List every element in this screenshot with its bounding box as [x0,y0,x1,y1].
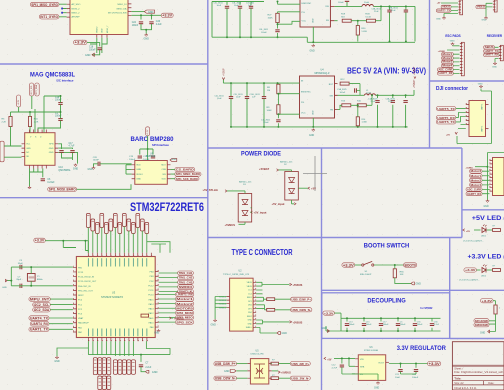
U6 left pins [355,359,358,374]
svg-text:VOUT: VOUT [378,362,385,364]
svg-text:VDDIO: VDDIO [136,174,143,176]
svg-text:DP2: DP2 [248,308,252,310]
QMC bottom pins [30,165,47,168]
svg-text:SBU1: SBU1 [247,297,252,299]
svg-text:I2C1_SCL: I2C1_SCL [31,84,33,94]
svg-text:B3U-1000P: B3U-1000P [360,274,372,276]
junction dots BEC2 fb [357,104,359,106]
svg-text:GND: GND [450,41,455,43]
resistor R8 1M (BEC2) [267,84,280,94]
wire +3.3V to BARO caps rail [140,136,153,161]
wire BEC1 output rail [373,6,415,41]
BMP left pins [132,165,135,179]
net label +5V_input (D3 out) [251,211,267,215]
svg-text:GND: GND [49,152,54,154]
capacitor C7 2.2uF [139,362,152,369]
capacitor C41 10uF (BEC2 in) [234,94,250,99]
svg-text:4.7uF: 4.7uF [69,146,75,148]
ground symbol DJI top [478,83,483,88]
svg-text:C1A_8025: C1A_8025 [337,88,347,91]
sheet divider horizontal y=81 (DJI connector top) [430,80,504,82]
capacitor C37 22uF (BEC1 out) [389,6,409,12]
svg-text:10uF: 10uF [217,98,222,100]
svg-text:UART?_RX: UART?_RX [439,72,453,75]
wire SPI1_MOSI_BARO to BMP [77,184,131,189]
capacitor C55 100nF (dec) [413,321,423,326]
capacitor C33 100nF (BEC1) [259,29,280,34]
svg-text:TIM1_CH3: TIM1_CH3 [179,280,193,284]
wire LED2 left [477,269,481,271]
svg-text:GND: GND [480,333,485,335]
wire DJI flags to pins [456,109,466,129]
wire BEC2 fb network [338,95,373,117]
svg-text:SPI1_MOSI_BARO: SPI1_MOSI_BARO [49,188,76,192]
wire D3 output [251,208,252,212]
svg-text:SDO: SDO [161,165,166,167]
capacitor C20 100nF (REG out) [412,370,419,379]
svg-text:0.22uF: 0.22uF [47,182,55,184]
net flag SWDIO (SWD) [474,323,489,327]
net label +5V (D2 right) [308,186,316,190]
svg-text:4.7uF: 4.7uF [332,367,338,369]
MCU bottom pin labels (vertical) [88,329,146,337]
net flag +3.3V (MCU) [34,238,46,242]
svg-text:GND: GND [416,283,422,286]
junction dots BEC2 rail [230,126,232,128]
svg-text:DJI connector: DJI connector [436,86,468,92]
wire REG out caps to GND [401,372,417,374]
svg-text:GNB: GNB [136,169,141,171]
switch S1 B3U-1000P [360,261,374,275]
svg-text:100nF: 100nF [261,32,267,34]
ground symbol ESC PADS top [450,41,455,46]
net flag column right of MCU (upper) [178,271,194,294]
svg-text:2.2K: 2.2K [2,121,7,123]
junction dots caps top [140,14,142,16]
svg-text:+5VBUS: +5VBUS [293,321,303,324]
svg-text:8MHz: 8MHz [37,279,43,281]
wire MAG edge connector to chip [4,146,21,157]
ground symbol motor connector [484,200,490,209]
wire TYPE-C VBUS to +5VBUS [256,282,289,286]
svg-text:QMC5883L: QMC5883L [58,169,71,172]
svg-text:33pF: 33pF [16,279,22,281]
wire BEC2 input rail [223,80,299,96]
ic U3 STM32F722RET6 (MCU) [76,257,155,338]
svg-text:PC12: PC12 [148,285,154,287]
svg-text:+5VBUS: +5VBUS [225,223,236,227]
label U5 USBLC6 [250,351,264,356]
QMC top pins [30,130,47,133]
U5 internal diodes [254,364,265,378]
wire TYPE-C shell to GND below [256,328,277,334]
svg-text:USB_2W_P+: USB_2W_P+ [291,362,309,366]
crystal Y1 8MHz [27,274,42,282]
net flag SPI1_MOSI_BARO [48,187,77,191]
svg-text:LY-2.5/Y2C-CQ(RU/T...: LY-2.5/Y2C-CQ(RU/T... [459,280,480,282]
svg-text:C18: C18 [89,46,94,48]
net label +5VBUS (TYPE-C lower) [290,321,303,325]
capacitor C35 100nF (BEC1 bst) [338,0,349,4]
svg-text:GND: GND [148,11,154,14]
svg-text:GND: GND [248,320,253,322]
wire MCU left flags to pins [49,299,73,329]
wire +3.3V to MCU rail [45,241,88,253]
svg-text:MISO_2: MISO_2 [72,13,81,15]
label BAT54C D3 [239,180,252,186]
wire gyro pin to +3.3V flag via caps [132,15,162,19]
capacitor C30 10uF (BEC1 in) [214,3,230,9]
svg-text:CS_BARO: CS_BARO [176,168,195,172]
ic U9 BMP280 (BARO chip) [135,161,168,185]
ground symbol TYPE-C bottom [277,332,287,336]
net label +5VBAT (D2) [259,167,279,171]
svg-text:TIM1_CH2: TIM1_CH2 [179,276,193,280]
DJI right pin [486,105,489,129]
svg-text:INT1_GYRO: INT1_GYRO [40,15,58,19]
ic U8 MP9943 (BEC1, partial) [300,0,330,27]
svg-text:GND: GND [88,169,93,171]
ground symbol BEC2 [309,129,315,137]
wire REG input [334,358,355,366]
svg-text:10uF: 10uF [236,96,241,98]
svg-text:POWER DIODE: POWER DIODE [241,150,282,157]
diode LED1 +5V [482,225,487,233]
net flag SPI1_MISO_BARO [175,172,201,176]
TYPE-C left pins [227,297,230,308]
capacitor C36 22uF (BEC1 out) [372,7,392,13]
inductor L3 10uH (BEC1) [362,2,373,6]
svg-text:100nF: 100nF [55,100,62,102]
QMC left pins [22,144,25,157]
BEC2 pin labels [301,80,334,115]
wire U5 pin1 [237,363,248,365]
svg-text:SD: SD [26,156,29,158]
net label +5VBUS (U5 right) [278,371,291,375]
svg-text:33pF: 33pF [18,263,24,265]
svg-text:INT1/SYNC/CLKIN: INT1/SYNC/CLKIN [108,13,127,15]
capacitor C40 10uF (BEC2 in) [215,96,234,101]
svg-text:STM32F722RET6: STM32F722RET6 [101,295,123,299]
svg-text:GND: GND [313,110,315,115]
svg-text:100nF: 100nF [263,122,269,124]
svg-text:KiCad E.D.A. 6.0.11: KiCad E.D.A. 6.0.11 [454,387,477,390]
ic U10 QMC5883L (MAG chip) [25,133,55,166]
svg-text:STM32F722RET6: STM32F722RET6 [130,200,204,214]
svg-text:C26: C26 [156,21,161,23]
svg-text:NC: NC [26,152,30,154]
power flag GND above BARO [170,159,177,162]
svg-text:VIDEO: VIDEO [442,6,450,9]
BMP pin labels [136,165,166,181]
svg-text:GND: GND [436,19,441,21]
wire BEC1 caps to bottom rail [227,8,251,37]
svg-text:GND: GND [26,148,31,150]
wire switch right to BOOT0 [374,265,404,268]
capacitor C18 100nF [89,46,102,51]
net label +5V (DJI) [446,132,457,136]
svg-text:TIM1_CH1: TIM1_CH1 [179,271,193,275]
svg-text:PA12: PA12 [149,312,155,315]
svg-text:BAT54C_215: BAT54C_215 [280,160,293,163]
U5 right pins [269,364,272,379]
svg-text:10K: 10K [400,274,404,276]
svg-text:Sheet: /: Sheet: / [454,367,463,371]
resistor R10 2.2K (MAG) [28,117,38,127]
svg-text:MOTOR5: MOTOR5 [176,306,193,310]
net flag USB_D2W_N (U5) [214,376,237,380]
svg-text:for STM32: for STM32 [420,306,432,310]
net flag USB2W_N (U5 right) [290,376,310,380]
power flag GND (BOOTH) [411,282,421,286]
net flag +3.3V (SWD) [481,299,494,303]
capacitor C42 1uF (BEC2 in) [250,94,267,99]
wire R56 to GND [395,278,411,284]
junction dots decoupling [346,317,416,332]
wire R8/R9 to chip [278,83,299,127]
net flag UART5_TX2 (DJI) [436,120,456,124]
inductor L1 10uH (BEC2) [364,90,375,96]
svg-text:+5VBUS: +5VBUS [281,371,291,374]
capacitor C24 100nF [132,22,144,27]
wire REG EN tie [352,373,355,375]
svg-text:+5V_STLink: +5V_STLink [203,188,219,192]
title block frame [452,342,504,390]
ground symbol right cluster [482,17,488,22]
svg-text:UART?_TX: UART?_TX [485,50,499,53]
wire BEC1 input rail top [212,2,264,38]
pad pins column ESC PADS [460,42,464,76]
svg-text:BOOT0: BOOT0 [405,263,416,267]
diode D2 BAT54C [285,172,299,201]
junction dots R27 node [277,23,279,25]
ic U6 RT9013 (3.3V regulator) [358,355,385,381]
junction dots BARO rail [147,148,149,150]
wire caps bottom join [62,153,78,164]
svg-text:GND: GND [136,179,141,181]
svg-text:GND: GND [374,388,379,390]
svg-text:BARO BMP280: BARO BMP280 [131,136,174,143]
svg-text:GND: GND [282,332,288,335]
capacitor C19 100nF (BARO) [129,156,142,161]
wire BEC1 fb network [351,6,381,41]
svg-text:VCC: VCC [301,113,306,115]
svg-text:C3A_8011: C3A_8011 [372,7,382,10]
svg-text:SPI Interface: SPI Interface [152,143,169,147]
svg-text:R1B: R1B [365,14,370,16]
svg-text:ADC_CURR: ADC_CURR [467,187,482,191]
net label +5VBAT vertical (BEC2 out) [413,79,416,88]
net flag column motor connector [466,169,482,196]
wire QMC bottom pins down [30,169,43,187]
no-connect marks (blue) [61,8,63,10]
sheet divider horizontal y=64 (MAG section top) [0,63,208,65]
svg-text:+3.3V: +3.3V [18,99,20,105]
label U4 MP9943GQ-Z [315,69,330,75]
wire C12 to GND [342,367,378,380]
svg-text:+5VBUS: +5VBUS [174,317,184,320]
capacitor C14 100nF (BEC2 bst) [337,88,356,94]
net flag +3.3V (BOOTH) [342,263,355,267]
svg-text:UART5: UART5 [481,104,484,110]
svg-text:3.3V REGULATOR: 3.3V REGULATOR [397,345,446,352]
net label +5V (LED1) [463,229,471,233]
junction dots BEC2 out [377,94,379,96]
wire BEC2 output rail [376,90,415,127]
ground symbol C28 [88,167,96,172]
svg-text:USB_D2W_P+: USB_D2W_P+ [215,362,236,366]
svg-text:+3.3V: +3.3V [324,311,335,315]
svg-text:GND: GND [54,360,60,363]
sheet divider vertical x=429.5 (DJI/ESC column) [429,0,431,148]
MCU left pin labels [78,267,97,334]
wire MCU top right routing [147,242,170,253]
wire switch left [355,264,362,266]
wire MCU right pins to flags [159,273,178,322]
svg-text:22uF: 22uF [371,101,376,103]
sheet divider horizontal y=148 (BEC section bottom) [208,147,462,149]
diode LED2 +3.3V [482,265,487,273]
svg-text:I2C2_SDA: I2C2_SDA [34,308,50,312]
svg-text:+5V: +5V [327,359,332,361]
svg-text:PH0-OSC_IN: PH0-OSC_IN [78,286,91,288]
svg-text:MISO_DI: MISO_DI [118,4,127,6]
BMP right pins [167,165,170,179]
resistor R58 10K (SWD) [494,305,501,314]
capacitor C16 100nF (MAG) [55,97,63,105]
wire bus cluster to MCU top pins [88,227,147,253]
ground symbol MAG bottom [28,186,31,189]
capacitor C13 100nF (dec) [345,321,355,326]
svg-text:+VSUP: +VSUP [224,68,226,76]
sheet divider vertical x=321.5 [321,148,323,390]
svg-text:100nF: 100nF [412,377,419,379]
wire BEC1 SW to inductor [334,2,362,21]
svg-text:AP1/MP: AP1/MP [72,16,81,19]
capacitor C12 4.7uF (REG in) [332,364,345,369]
net flag VIDEO (left cluster) [441,5,451,8]
label U10 QMC5883L [58,166,71,172]
capacitor C17 100nF (dec) [379,321,389,326]
svg-text:VIN: VIN [360,359,364,361]
wire SWD +3.3V down [493,301,495,305]
svg-text:RECEIVER: RECEIVER [487,34,503,38]
wire QMC right pins to caps [58,144,77,164]
svg-text:UART?_RX: UART?_RX [485,54,499,57]
capacitor C25 (MAG right) [59,151,63,153]
svg-text:NRST: NRST [78,295,84,297]
svg-text:GND: GND [172,159,177,161]
svg-text:C17: C17 [69,143,74,145]
net flag UART4_RX [30,322,49,327]
svg-text:PC11: PC11 [148,290,154,292]
wire gyro pin to GND flag [132,11,145,13]
wire REG output [389,364,428,368]
capacitor C28 100nF (left of BARO) [93,157,100,166]
resistor R14 1.06K (BEC2 fb) [356,117,367,126]
svg-text:GND: GND [322,327,328,330]
resistor R12 (BEC2 bst) [340,79,349,85]
title block text Size/Date [454,382,494,385]
QMC right pins [55,144,58,153]
svg-text:+3.3V: +3.3V [429,362,441,366]
wire gyro bottom pins down [90,38,107,53]
svg-text:PG: PG [302,12,305,14]
svg-text:UART4_TX: UART4_TX [30,316,49,320]
junction dot MCU bottom rail [140,354,142,356]
wire BEC1 bottom rail [212,27,415,42]
svg-text:USB_D2W_N-: USB_D2W_N- [292,308,311,312]
svg-text:100nF: 100nF [400,324,406,326]
svg-text:GND: GND [73,168,79,171]
svg-text:+3.3V: +3.3V [75,41,88,45]
resistor R23 22R (U5 right top) [271,360,279,365]
svg-text:UART5_TX: UART5_TX [437,107,456,111]
resistor R25 (VCAP) [141,314,149,317]
wire ESC PADS flags to pins [447,46,460,74]
wire crystal circuit [7,267,73,286]
wire MCU bottom pins routing [57,341,170,362]
net flag +3.3V (gyro decoupling) [161,13,173,17]
junction dots crystal [30,266,32,268]
net flag SPI1_SCK_BARO [175,177,199,181]
net label +5VBAT vertical (BEC1 out) [413,66,416,79]
cursor crosshair [303,173,327,175]
svg-text:LED1: LED1 [481,236,487,238]
svg-text:100nF: 100nF [340,92,346,94]
capacitor C6 0.22uF (MAG bottom) [41,179,56,184]
BEC2 right pins [335,84,338,110]
svg-text:10uH: 10uH [366,92,371,94]
svg-text:51K: 51K [341,16,345,18]
svg-text:UART5_TX: UART5_TX [437,120,456,124]
junction dot switch node [394,264,396,266]
ground symbol below gyro [85,53,94,57]
svg-text:SBUS: SBUS [485,46,494,49]
TYPE-C pin labels [246,282,253,329]
wire decoupling rail [326,313,441,331]
wire RECEIVER flags to pins [495,47,500,62]
ground symbol MAG right [73,164,79,171]
net flag +3.3V left of gyro bottom [74,40,88,44]
svg-text:PA14: PA14 [149,303,155,306]
svg-text:MISO_DA: MISO_DA [117,8,127,11]
resistor R9 100K (BEC2) [267,105,281,115]
svg-text:Motor3: Motor3 [443,61,454,64]
gyro right pin labels [108,4,127,15]
net label +5V (REG in) [324,357,332,361]
wire BEC2 bottom rail [231,118,408,127]
sheet divider horizontal y=338.5 [450,338,504,340]
svg-text:MPU_INT: MPU_INT [30,298,49,302]
wire C28 to GND [94,164,98,167]
capacitor C21 10uF (REG out) [395,370,403,379]
capacitor C15 100nF (dec) [362,321,372,326]
svg-text:+3.3V: +3.3V [465,268,477,272]
svg-text:SPI1_MISO_GYRO: SPI1_MISO_GYRO [31,3,58,7]
ground symbol left cluster [436,17,446,21]
wire U5 right bottom [279,377,291,379]
svg-text:GND: GND [313,18,315,23]
svg-text:10uF: 10uF [234,5,239,7]
wire caps bottom to GND [141,24,152,34]
junction dots BEC1 out [389,5,391,7]
resistor R22 22R (USB N) [267,308,275,311]
svg-text:UART1_RX: UART1_RX [176,293,193,297]
net label +5VBUS arrow (MCU right) [169,317,184,320]
U6 right pins [386,361,389,363]
wire LED1 left [474,229,481,231]
